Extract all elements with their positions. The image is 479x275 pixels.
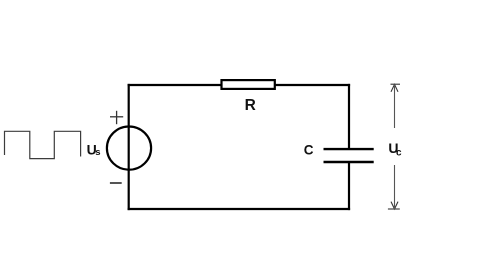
plus polarity mark (110, 111, 123, 124)
dimension line upper segment (394, 84, 396, 128)
wire bottom (128, 208, 351, 210)
svg-text:c: c (396, 148, 402, 159)
wire right upper (348, 84, 350, 149)
resistor R (222, 80, 275, 89)
minus polarity mark (110, 182, 122, 184)
arrow down (391, 202, 398, 209)
svg-text:s: s (95, 147, 100, 158)
wire left (128, 84, 130, 210)
svg-text:C: C (304, 142, 314, 157)
dimension tick top (391, 83, 401, 85)
wire top (128, 84, 351, 86)
arrow up (391, 84, 398, 91)
svg-text:R: R (245, 97, 256, 114)
voltage source Us circle (107, 127, 151, 170)
dimension tick bottom (388, 208, 400, 210)
capacitor C bottom plate (324, 161, 374, 163)
wire right lower (348, 162, 350, 210)
square wave source waveform icon (5, 131, 81, 158)
dimension line lower segment (394, 165, 396, 209)
capacitor C top plate (324, 148, 374, 150)
